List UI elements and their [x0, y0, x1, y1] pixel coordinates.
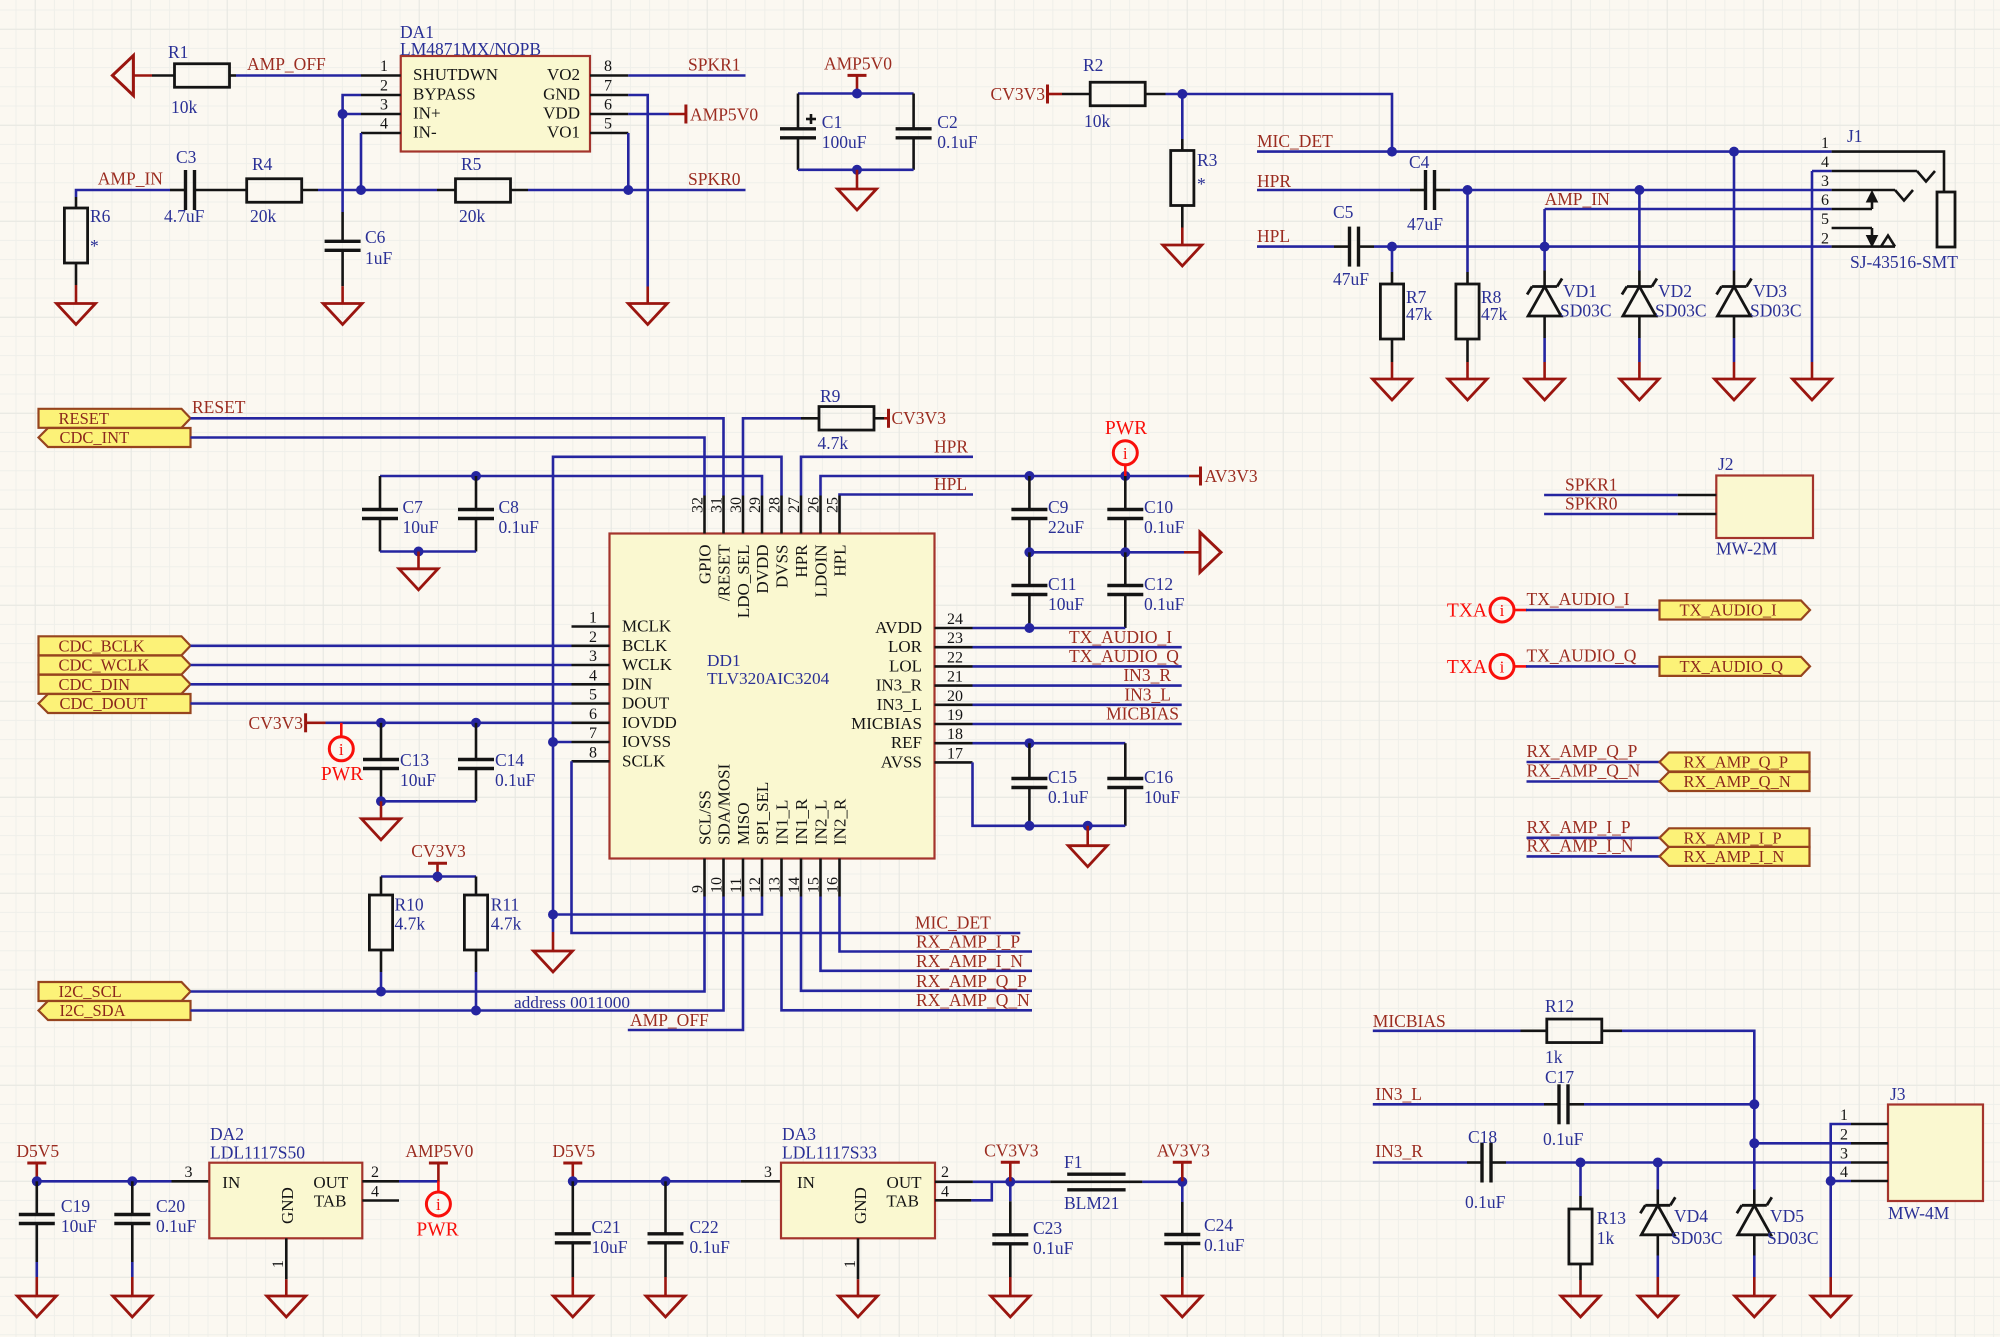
wire IOVDD rail [326, 721, 572, 724]
junction C19 top [32, 1176, 42, 1186]
junction R3 top [1177, 89, 1187, 99]
DD1 pin 10 SDA/MOSI [722, 859, 725, 897]
svg-text:VD5: VD5 [1770, 1206, 1804, 1226]
svg-text:SPKR1: SPKR1 [688, 55, 741, 75]
junction C22 top [661, 1176, 671, 1186]
wire LDO_SEL to R9 [743, 418, 801, 495]
svg-text:VD3: VD3 [1753, 281, 1787, 301]
ground below C24 [1181, 1277, 1184, 1296]
svg-text:2: 2 [1821, 231, 1829, 248]
diode VD1 SD03C [1543, 247, 1546, 271]
ground below VD3 [1733, 316, 1736, 338]
junction [852, 165, 862, 175]
DD1 pin 7 IOVSS [572, 741, 610, 744]
svg-text:47k: 47k [1406, 304, 1433, 324]
svg-text:GND: GND [543, 85, 580, 104]
ground below C1/C2 [856, 170, 859, 189]
svg-text:2: 2 [941, 1164, 949, 1181]
resistor R5 [437, 189, 456, 192]
svg-text:0.1uF: 0.1uF [1144, 517, 1185, 537]
wire IN3_L to C17 [1373, 1103, 1544, 1106]
svg-text:IN3_L: IN3_L [877, 695, 922, 714]
ground below R6 [75, 263, 78, 285]
svg-text:10uF: 10uF [1144, 787, 1180, 807]
svg-text:VDD: VDD [543, 104, 580, 123]
svg-text:RX_AMP_I_N: RX_AMP_I_N [1684, 847, 1785, 866]
svg-text:R9: R9 [820, 386, 841, 406]
svg-text:3: 3 [589, 648, 597, 665]
svg-text:GPIO: GPIO [696, 545, 715, 585]
wire IN3_R row to J3 pin3 [1506, 1161, 1851, 1164]
svg-text:12: 12 [747, 877, 764, 893]
resistor R12 [1521, 1030, 1547, 1033]
port flag RESET [39, 409, 191, 428]
DA1 pin 1 [361, 74, 401, 77]
svg-text:25: 25 [825, 497, 842, 513]
wire AMP_IN to jack pin6 [1545, 208, 1832, 211]
DD1 pin 21 IN3_R [935, 684, 973, 687]
junction IOVSS tap [548, 737, 558, 747]
port flag CDC_BCLK [39, 636, 191, 655]
junction [338, 109, 348, 119]
svg-text:9: 9 [690, 885, 707, 893]
resistor R6 [75, 197, 78, 208]
wire MICBIAS from pin19 [973, 723, 1182, 726]
svg-text:OUT: OUT [313, 1173, 349, 1192]
wire RX_AMP_Q_N flag [1527, 780, 1660, 783]
svg-text:RX_AMP_I_N: RX_AMP_I_N [1527, 835, 1634, 855]
svg-text:2: 2 [380, 78, 388, 95]
wire R11 to I2C_SDA [475, 950, 478, 972]
svg-text:28: 28 [767, 497, 784, 513]
ground below DA1 [646, 287, 649, 304]
DD1 pin 24 AVDD [935, 627, 973, 630]
junction [1387, 147, 1397, 157]
wire RX_AMP_Q_P from pin14 [801, 897, 1032, 991]
svg-text:RX_AMP_I_N: RX_AMP_I_N [916, 951, 1023, 971]
svg-text:31: 31 [709, 497, 726, 513]
DD1 pin 14 IN1_R [800, 859, 803, 897]
svg-text:HPL: HPL [1257, 226, 1290, 246]
DD1 pin 9 SCL/SS [703, 859, 706, 897]
diode VD4 SD03C [1657, 1163, 1660, 1190]
svg-text:LOL: LOL [889, 656, 922, 675]
svg-text:TX_AUDIO_I: TX_AUDIO_I [1680, 601, 1777, 620]
svg-text:SPI_SEL: SPI_SEL [753, 782, 772, 845]
wire RX_AMP_I_P from pin16 [840, 897, 1033, 952]
svg-text:100uF: 100uF [822, 132, 867, 152]
junction J3 pin4 [1826, 1176, 1836, 1186]
wire D5V5 rail to DA3 [573, 1180, 741, 1183]
svg-text:27: 27 [786, 497, 803, 513]
wire I2C_SCL to pin9 [191, 897, 705, 992]
wire AMP5V0 rail top [798, 92, 914, 95]
capacitor C15 [1028, 743, 1031, 778]
junction C21 top [568, 1176, 578, 1186]
svg-text:19: 19 [947, 707, 963, 724]
svg-text:1: 1 [589, 610, 597, 627]
svg-text:C16: C16 [1144, 767, 1173, 787]
svg-text:IN: IN [222, 1173, 240, 1192]
svg-text:R10: R10 [395, 895, 424, 915]
wire CDC_DOUT [191, 702, 572, 705]
junction C14 top [471, 718, 481, 728]
junction [852, 89, 862, 99]
svg-text:TX_AUDIO_Q: TX_AUDIO_Q [1680, 657, 1784, 676]
svg-text:I2C_SDA: I2C_SDA [60, 1001, 126, 1020]
svg-text:MIC_DET: MIC_DET [915, 913, 991, 933]
svg-text:4: 4 [1821, 154, 1829, 171]
junction R7 tap [1387, 242, 1397, 252]
svg-text:LOR: LOR [888, 637, 923, 656]
svg-text:21: 21 [947, 669, 963, 686]
svg-text:C18: C18 [1468, 1127, 1497, 1147]
svg-text:PWR: PWR [1105, 418, 1147, 439]
svg-text:C14: C14 [495, 750, 524, 770]
DD1 pin 32 GPIO [703, 496, 706, 534]
capacitor C17 [1544, 1103, 1559, 1106]
wire to J3 pin2 [1754, 1142, 1851, 1145]
DA1 pin 2 [361, 94, 401, 97]
svg-text:29: 29 [747, 497, 764, 513]
wire R2 to MIC_DET corner [1166, 94, 1393, 152]
svg-text:CDC_BCLK: CDC_BCLK [59, 636, 145, 655]
svg-text:DD1: DD1 [707, 651, 741, 670]
wire RX_AMP_Q_P flag [1527, 761, 1660, 764]
wire SPKR1 [628, 74, 745, 77]
DA1 pin 8 [590, 74, 628, 77]
svg-text:15: 15 [806, 877, 823, 893]
DD1 pin 16 IN2_R [838, 859, 841, 897]
wire R10 to I2C_SCL [380, 950, 383, 972]
svg-text:LDOIN: LDOIN [812, 545, 831, 598]
svg-text:R11: R11 [491, 895, 520, 915]
wire RX_AMP_I_N from pin15 [821, 897, 1033, 971]
ground DVSS [552, 932, 555, 951]
svg-text:IN: IN [797, 1173, 815, 1192]
resistor R10 [380, 877, 383, 896]
wire RX_AMP_I_P flag [1527, 836, 1660, 839]
svg-text:HPR: HPR [1257, 171, 1291, 191]
resistor R9 [801, 417, 819, 420]
svg-text:i: i [1123, 444, 1128, 463]
svg-text:1: 1 [1840, 1107, 1848, 1124]
DA1 pin 5 [590, 132, 628, 135]
svg-text:DA2: DA2 [210, 1124, 244, 1144]
junction IN- node [356, 185, 366, 195]
svg-text:5: 5 [604, 116, 612, 133]
svg-text:C17: C17 [1545, 1067, 1574, 1087]
wire BYPASS from pin2 to C6 [343, 95, 361, 212]
svg-text:LM4871MX/NOPB: LM4871MX/NOPB [400, 39, 541, 59]
svg-text:C12: C12 [1144, 574, 1173, 594]
wire AVDD row [973, 627, 1126, 630]
svg-text:IOVSS: IOVSS [622, 732, 671, 751]
junction ground tap [376, 796, 386, 806]
svg-text:REF: REF [891, 733, 922, 752]
svg-text:D5V5: D5V5 [16, 1141, 59, 1161]
svg-text:10: 10 [709, 877, 726, 893]
svg-text:IN2_L: IN2_L [812, 800, 831, 845]
svg-text:DVDD: DVDD [753, 545, 772, 594]
DD1 pin 18 REF [935, 742, 973, 745]
svg-text:DOUT: DOUT [622, 694, 670, 713]
svg-text:C7: C7 [403, 497, 424, 517]
DD1 pin 13 IN1_L [780, 859, 783, 897]
wire HPL from pin25 [840, 495, 974, 496]
ground below J3 [1829, 1277, 1832, 1296]
svg-text:3: 3 [185, 1164, 193, 1181]
ground below DA2 [285, 1279, 288, 1296]
DD1 pin 23 LOR [935, 646, 973, 649]
svg-text:C10: C10 [1144, 497, 1173, 517]
svg-text:MW-4M: MW-4M [1888, 1203, 1950, 1223]
component DA3 LDL1117S33 [741, 1180, 781, 1183]
capacitor C10 [1124, 476, 1127, 510]
svg-text:AMP_IN: AMP_IN [1545, 189, 1611, 209]
svg-text:BCLK: BCLK [622, 636, 668, 655]
DA3 pin 2 OUT [935, 1181, 973, 1184]
ground below C23 [1009, 1277, 1012, 1296]
svg-text:MISO: MISO [734, 802, 753, 845]
power flag PWR at AMP5V0 [437, 1181, 440, 1192]
svg-text:14: 14 [786, 877, 803, 893]
svg-text:TX_AUDIO_I: TX_AUDIO_I [1069, 627, 1172, 647]
port flag CDC_INT [39, 428, 191, 447]
J2 pin 1 [1678, 494, 1717, 497]
resistor R7 [1391, 247, 1394, 272]
capacitor C12 [1124, 552, 1127, 585]
svg-text:C1: C1 [822, 112, 842, 132]
svg-text:CDC_INT: CDC_INT [60, 428, 130, 447]
svg-text:AMP5V0: AMP5V0 [690, 105, 758, 125]
ground below C6 [341, 286, 344, 303]
junction VD4 tap [1653, 1158, 1663, 1168]
wire IOVSS to DVSS line [553, 741, 572, 744]
svg-text:IN3_L: IN3_L [1124, 684, 1171, 704]
DD1 pin 27 HPR [800, 496, 803, 534]
svg-text:IN+: IN+ [413, 104, 441, 123]
capacitor C19 [35, 1181, 38, 1214]
wire SPI_SEL to ground line [553, 897, 762, 915]
svg-text:OUT: OUT [887, 1173, 923, 1192]
junction C9 top [1024, 471, 1034, 481]
svg-text:HPR: HPR [792, 544, 811, 578]
resistor R4 [247, 179, 302, 203]
svg-text:IN-: IN- [413, 123, 437, 142]
capacitor C7 [379, 476, 382, 510]
svg-text:11: 11 [728, 878, 745, 893]
svg-text:RX_AMP_Q_P: RX_AMP_Q_P [1527, 741, 1638, 761]
junction C8 top [471, 471, 481, 481]
svg-text:2: 2 [589, 629, 597, 646]
svg-text:CDC_DOUT: CDC_DOUT [60, 694, 148, 713]
connector J2 MW-2M [1716, 476, 1813, 539]
capacitor C11 [1028, 552, 1031, 585]
svg-text:MICBIAS: MICBIAS [1106, 704, 1179, 724]
svg-text:CDC_DIN: CDC_DIN [59, 675, 131, 694]
capacitor C1 electrolytic [797, 94, 800, 129]
ground below R7 [1391, 339, 1394, 362]
wire AGND mid rail [1029, 551, 1184, 554]
svg-text:4: 4 [941, 1184, 949, 1201]
svg-text:SD03C: SD03C [1750, 301, 1802, 321]
svg-text:RX_AMP_Q_P: RX_AMP_Q_P [1684, 753, 1789, 772]
DA1 pin 4 [361, 132, 401, 135]
svg-text:C3: C3 [176, 147, 197, 167]
svg-text:VO2: VO2 [547, 65, 580, 84]
svg-text:HPR: HPR [934, 437, 968, 457]
DD1 pin 6 IOVDD [572, 721, 610, 724]
wire RX_AMP_Q_N from pin13 [782, 897, 1033, 1011]
svg-text:CV3V3: CV3V3 [249, 713, 304, 733]
DA3 pin 4 TAB [935, 1199, 971, 1202]
capacitor C18 [1467, 1161, 1482, 1164]
component DD1 TLV320AIC3204 [610, 534, 935, 859]
svg-text:0.1uF: 0.1uF [495, 770, 536, 790]
DD1 pin 31 /RESET [722, 496, 725, 534]
ground below VD1 [1543, 316, 1546, 338]
svg-text:HPL: HPL [831, 545, 850, 577]
svg-text:16: 16 [825, 877, 842, 893]
svg-text:1: 1 [380, 58, 388, 75]
ground below C19 [35, 1277, 38, 1296]
svg-text:LDL1117S50: LDL1117S50 [210, 1143, 305, 1163]
wire AMP_OFF from pin11 [628, 897, 743, 1031]
svg-text:TX_AUDIO_Q: TX_AUDIO_Q [1069, 646, 1179, 666]
svg-text:RX_AMP_Q_N: RX_AMP_Q_N [1684, 772, 1791, 791]
capacitor C21 [571, 1181, 574, 1234]
wire GND pin7 to ground [628, 95, 647, 287]
svg-text:i: i [339, 740, 344, 759]
wire pin3 IN+ to BYPASS node [343, 113, 361, 116]
capacitor C4 [1410, 189, 1426, 192]
svg-text:RESET: RESET [59, 409, 109, 428]
DD1 pin 29 DVDD [761, 496, 764, 534]
junction C13 top [376, 718, 386, 728]
ground below R13 [1579, 1264, 1582, 1280]
svg-text:TX_AUDIO_Q: TX_AUDIO_Q [1527, 645, 1637, 665]
port flag CDC_DOUT [39, 694, 191, 713]
svg-text:C2: C2 [937, 112, 957, 132]
svg-text:IN2_R: IN2_R [831, 798, 850, 845]
svg-text:4.7k: 4.7k [818, 433, 849, 453]
wire CDC_BCLK [191, 644, 572, 647]
junction C11 bottom [1024, 623, 1034, 633]
wire pin4 IN- down to AMP_IN node [360, 133, 363, 190]
J1 ring contact arrow down [1871, 228, 1874, 236]
component DA1 LM4871MX/NOPB [401, 56, 590, 152]
svg-text:IN3_L: IN3_L [1375, 1084, 1422, 1104]
ferrite bead F1 BLM21 [1050, 1181, 1142, 1184]
J1 tip contact arrow up [1871, 201, 1874, 209]
wire C17 to IN3_L node [1584, 1103, 1754, 1106]
svg-text:F1: F1 [1064, 1152, 1082, 1172]
DD1 pin 8 SCLK [572, 760, 610, 763]
svg-text:1: 1 [842, 1260, 859, 1268]
svg-text:AV3V3: AV3V3 [1205, 466, 1258, 486]
capacitor C5 [1334, 245, 1350, 248]
svg-text:BLM21: BLM21 [1064, 1193, 1119, 1213]
port flag CDC_DIN [39, 675, 191, 694]
svg-text:SDA/MOSI: SDA/MOSI [715, 763, 734, 845]
svg-text:3: 3 [764, 1164, 772, 1181]
svg-text:C8: C8 [499, 497, 520, 517]
svg-text:AVSS: AVSS [881, 752, 922, 771]
resistor R11 [475, 877, 478, 896]
svg-text:0.1uF: 0.1uF [156, 1216, 197, 1236]
svg-text:SPKR0: SPKR0 [1565, 494, 1618, 514]
junction C20 top [127, 1176, 137, 1186]
svg-text:4: 4 [371, 1184, 379, 1201]
svg-text:3: 3 [380, 97, 388, 114]
svg-text:47uF: 47uF [1407, 214, 1443, 234]
resistor R13 [1579, 1163, 1582, 1197]
J2 pin 2 [1678, 513, 1717, 516]
svg-text:2: 2 [371, 1164, 379, 1181]
junction ground tap [1083, 821, 1093, 831]
resistor R2 [1062, 93, 1090, 96]
wire C7/C8 bottom rail [380, 550, 476, 553]
svg-text:LDO_SEL: LDO_SEL [734, 545, 753, 619]
DD1 pin 22 LOL [935, 665, 973, 668]
DD1 pin 19 MICBIAS [935, 723, 973, 726]
svg-text:1: 1 [1821, 135, 1829, 152]
DA2 pin 1 GND [285, 1238, 288, 1279]
svg-text:i: i [1500, 601, 1505, 620]
svg-text:LDL1117S33: LDL1117S33 [782, 1143, 877, 1163]
wire IN3_R to C18 [1373, 1161, 1467, 1164]
svg-text:SPKR1: SPKR1 [1565, 475, 1618, 495]
svg-text:1k: 1k [1597, 1228, 1615, 1248]
svg-text:C19: C19 [61, 1196, 90, 1216]
svg-text:0.1uF: 0.1uF [1033, 1238, 1074, 1258]
ground below C15/C16 [1086, 826, 1089, 846]
svg-text:AMP_OFF: AMP_OFF [630, 1010, 709, 1030]
svg-text:7: 7 [589, 725, 597, 742]
power port CV3V3 right of R9 [884, 417, 889, 420]
svg-text:10uF: 10uF [400, 770, 436, 790]
junction ground tap [414, 547, 424, 557]
DA2 pin 2 OUT [362, 1180, 399, 1183]
svg-text:C15: C15 [1048, 767, 1077, 787]
wire D5V5 rail [37, 1180, 172, 1183]
svg-text:IN1_L: IN1_L [773, 800, 792, 845]
port flag I2C_SCL [39, 982, 191, 1001]
no-ERC arrow left of R1 [112, 56, 133, 96]
svg-text:C20: C20 [156, 1196, 185, 1216]
resistor R3 [1181, 94, 1184, 139]
diode VD5 SD03C [1753, 1190, 1756, 1206]
DD1 pin 4 DIN [572, 683, 610, 686]
power port AV3V3 [1189, 475, 1201, 478]
ground below C20 [131, 1277, 134, 1296]
svg-text:SD03C: SD03C [1767, 1228, 1819, 1248]
capacitor C2 [912, 94, 915, 129]
svg-text:20: 20 [947, 688, 963, 705]
junction [433, 872, 443, 882]
svg-text:VO1: VO1 [547, 123, 580, 142]
svg-text:BYPASS: BYPASS [413, 85, 476, 104]
capacitor C3 [170, 189, 186, 192]
wire IN3_L from pin20 [973, 703, 1182, 706]
wire CDC_WCLK [191, 664, 572, 667]
port flag RX_AMP_I_P [1660, 828, 1810, 847]
svg-text:D5V5: D5V5 [552, 1141, 595, 1161]
ground below C21 [571, 1277, 574, 1296]
svg-text:CV3V3: CV3V3 [984, 1140, 1039, 1160]
svg-text:0.1uF: 0.1uF [499, 517, 540, 537]
